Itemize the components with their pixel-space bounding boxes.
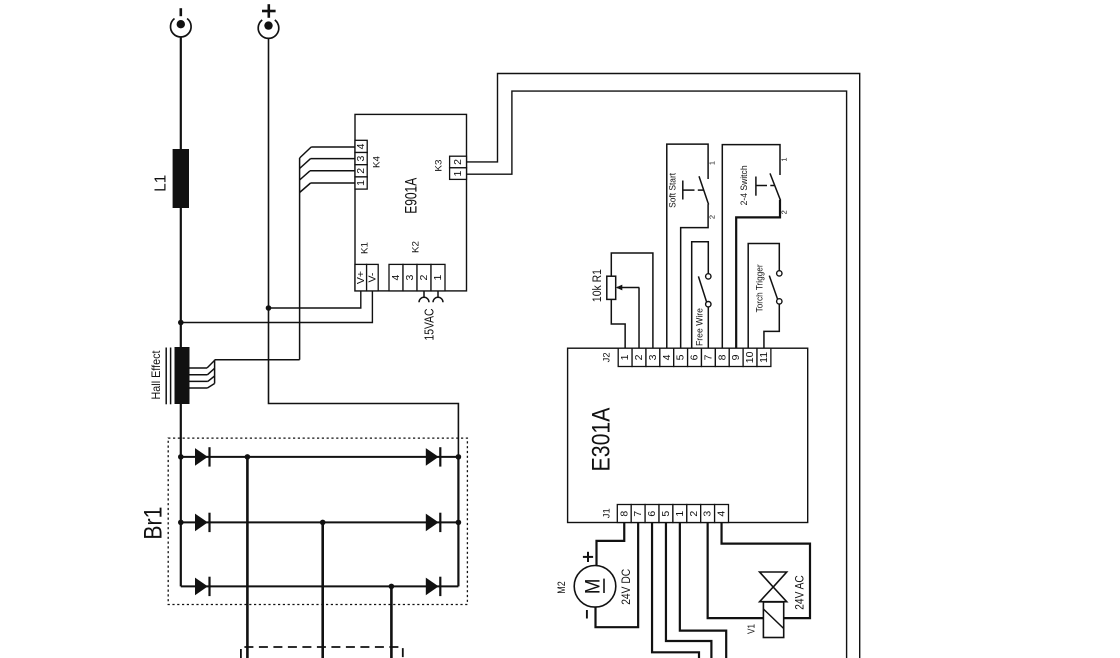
svg-text:J1: J1: [602, 508, 613, 518]
svg-text:2: 2: [452, 159, 464, 165]
svg-text:J2: J2: [602, 352, 613, 362]
svg-text:E901A: E901A: [403, 178, 421, 214]
svg-text:6: 6: [646, 511, 658, 517]
svg-text:2: 2: [418, 275, 430, 281]
svg-text:8: 8: [716, 354, 728, 360]
svg-text:5: 5: [660, 511, 672, 517]
svg-text:5: 5: [675, 354, 687, 360]
svg-text:K1: K1: [360, 242, 371, 254]
svg-text:15VAC: 15VAC: [422, 309, 436, 341]
svg-text:K2: K2: [411, 241, 422, 253]
svg-text:24V DC: 24V DC: [619, 569, 633, 605]
svg-text:3: 3: [702, 511, 714, 517]
svg-text:24V AC: 24V AC: [793, 575, 807, 610]
svg-text:10k R1: 10k R1: [592, 269, 604, 302]
svg-text:Br1: Br1: [140, 507, 168, 540]
svg-text:Soft Start: Soft Start: [668, 173, 678, 208]
svg-text:4: 4: [355, 143, 367, 149]
svg-text:1: 1: [432, 275, 444, 281]
svg-text:7: 7: [632, 511, 644, 517]
svg-text:Free Wire: Free Wire: [695, 308, 705, 346]
svg-text:1: 1: [452, 171, 464, 177]
svg-text:2: 2: [779, 210, 788, 214]
svg-text:1: 1: [355, 180, 367, 186]
svg-text:1: 1: [708, 161, 717, 165]
svg-text:4: 4: [716, 511, 728, 517]
svg-text:1: 1: [674, 511, 686, 517]
svg-text:E301A: E301A: [587, 407, 615, 471]
svg-text:3: 3: [404, 275, 416, 281]
svg-text:8: 8: [618, 511, 630, 517]
svg-text:9: 9: [730, 354, 742, 360]
svg-text:2: 2: [633, 354, 645, 360]
svg-text:V1: V1: [747, 624, 758, 634]
svg-text:Torch Trigger: Torch Trigger: [755, 264, 765, 312]
svg-text:2-4 Switch: 2-4 Switch: [739, 165, 749, 205]
svg-text:M2: M2: [556, 581, 568, 594]
svg-text:V+: V+: [355, 271, 367, 284]
svg-text:Hall Effect: Hall Effect: [149, 350, 163, 400]
svg-text:10: 10: [744, 351, 756, 363]
svg-text:V-: V-: [366, 272, 378, 282]
svg-text:3: 3: [355, 156, 367, 162]
svg-text:1: 1: [779, 158, 788, 162]
svg-text:1: 1: [619, 354, 631, 360]
svg-text:K4: K4: [372, 156, 383, 168]
svg-text:3: 3: [647, 354, 659, 360]
svg-text:M: M: [581, 579, 604, 595]
svg-text:L1: L1: [152, 175, 169, 192]
svg-text:2: 2: [708, 215, 717, 219]
svg-text:4: 4: [661, 354, 673, 360]
svg-text:2: 2: [688, 511, 700, 517]
svg-text:11: 11: [758, 352, 770, 363]
svg-text:6: 6: [689, 354, 701, 360]
svg-text:4: 4: [390, 275, 402, 281]
svg-text:7: 7: [702, 354, 714, 360]
svg-text:2: 2: [355, 168, 367, 174]
svg-text:K3: K3: [434, 160, 445, 172]
